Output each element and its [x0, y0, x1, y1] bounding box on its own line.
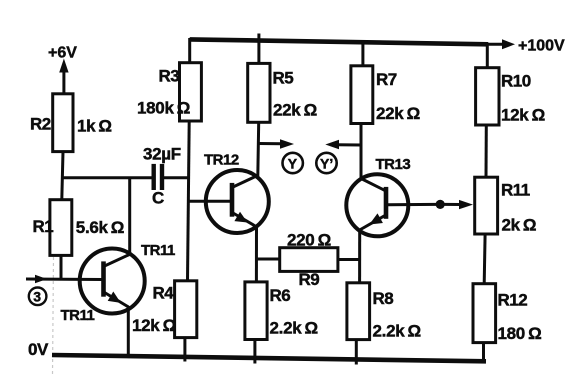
- svg-text:Y’: Y’: [320, 156, 333, 172]
- wire rail to R10 top: [486, 43, 489, 68]
- wire TR13 emitter down to R8: [358, 229, 361, 283]
- svg-text:TR13: TR13: [376, 156, 411, 173]
- wire TR12 emitter down to R6: [255, 226, 258, 282]
- top rail arrow to +100V: [486, 39, 515, 49]
- input arrowhead: [35, 275, 47, 284]
- wire TR13 base to output node: [387, 203, 436, 206]
- svg-text:+6V: +6V: [48, 45, 77, 62]
- +6V supply arrow: [59, 59, 68, 94]
- wire emitter node to R9 left: [255, 258, 280, 261]
- svg-text:3: 3: [33, 289, 41, 305]
- resistor R2: [53, 94, 73, 152]
- input wire to TR11 base: [26, 278, 102, 282]
- wire capacitor to R3/R4 column: [164, 176, 190, 179]
- wire TR11 collector up to cap node: [128, 177, 131, 256]
- wire R9 right to TR13 emitter line: [338, 258, 361, 261]
- svg-text:180k Ω: 180k Ω: [137, 99, 190, 118]
- wire TR12 collector up to R5: [256, 122, 260, 176]
- svg-text:R3: R3: [159, 67, 180, 86]
- node Y (circled): [283, 153, 303, 173]
- wire R5 top to rail: [257, 34, 260, 64]
- svg-text:R10: R10: [501, 72, 531, 91]
- resistor R12: [473, 284, 496, 343]
- test point Y' arrow (left): [325, 140, 361, 149]
- wire R2 bottom to R1 top: [62, 152, 63, 200]
- test point Y arrow (right): [258, 139, 294, 148]
- svg-text:2k Ω: 2k Ω: [502, 216, 537, 235]
- output arrow into R11: [444, 200, 473, 209]
- svg-text:12k Ω: 12k Ω: [501, 106, 545, 125]
- wire rail to R7 top: [361, 41, 364, 66]
- wire TR11 emitter down to 0V rail: [127, 306, 130, 358]
- wire column to TR12 base: [188, 200, 230, 203]
- crease artifact: [53, 257, 54, 374]
- wire R8 bottom to 0V rail: [355, 340, 358, 365]
- resistor R11: [475, 177, 498, 234]
- svg-text:1k Ω: 1k Ω: [77, 117, 112, 136]
- wire rail to R3 top: [188, 38, 191, 63]
- svg-text:22k Ω: 22k Ω: [376, 104, 420, 123]
- svg-text:2.2k Ω: 2.2k Ω: [270, 319, 318, 338]
- wire R4 bottom to 0V rail: [183, 338, 186, 362]
- node 3 (circled): [29, 288, 47, 306]
- resistor R10: [476, 68, 499, 125]
- +100V supply rail (top): [190, 39, 488, 44]
- output junction dot: [436, 200, 445, 209]
- wire node to coupling capacitor: [62, 176, 153, 179]
- wire R10 bottom to R11 top: [485, 125, 488, 177]
- svg-text:180 Ω: 180 Ω: [498, 324, 542, 343]
- svg-text:Y: Y: [288, 156, 298, 172]
- svg-text:R12: R12: [498, 291, 528, 310]
- resistor R8: [347, 283, 370, 340]
- svg-text:TR11: TR11: [61, 307, 95, 324]
- svg-text:C: C: [152, 189, 164, 208]
- svg-text:+100V: +100V: [518, 38, 565, 55]
- transistor TR12: [206, 170, 269, 233]
- transistor TR11: [80, 249, 145, 314]
- svg-text:R4: R4: [153, 284, 175, 303]
- resistor R4: [175, 281, 197, 338]
- 0V rail (bottom): [52, 355, 486, 361]
- wire R1 bottom to input node: [60, 255, 63, 280]
- node Y' (circled): [316, 153, 336, 173]
- svg-text:R5: R5: [273, 69, 294, 88]
- svg-text:32µF: 32µF: [143, 145, 181, 164]
- wire R7 bottom to TR13 collector: [360, 124, 363, 181]
- svg-text:R6: R6: [270, 286, 291, 305]
- svg-text:R9: R9: [299, 270, 320, 289]
- svg-text:220 Ω: 220 Ω: [287, 231, 331, 250]
- svg-text:R11: R11: [501, 181, 530, 200]
- resistor R9: [280, 248, 338, 272]
- svg-text:0V: 0V: [28, 340, 49, 359]
- svg-text:5.6k Ω: 5.6k Ω: [76, 218, 124, 237]
- resistor R7: [351, 66, 373, 124]
- svg-text:R7: R7: [376, 70, 397, 89]
- svg-text:R2: R2: [30, 115, 51, 134]
- svg-text:R8: R8: [373, 289, 394, 308]
- svg-text:2.2k Ω: 2.2k Ω: [373, 322, 421, 341]
- wire R11 bottom to R12 top: [483, 234, 487, 284]
- capacitor C 32uF: [154, 164, 162, 190]
- wire R3 bottom to R4 top (bias column): [188, 121, 190, 281]
- svg-text:R1: R1: [33, 217, 54, 236]
- svg-text:22k Ω: 22k Ω: [273, 101, 317, 120]
- transistor TR13: [346, 174, 408, 236]
- svg-text:12k Ω: 12k Ω: [132, 316, 176, 335]
- wire R12 bottom to 0V rail: [482, 343, 485, 362]
- resistor R1: [50, 200, 72, 256]
- resistor R3: [180, 63, 202, 121]
- resistor R5: [248, 63, 270, 122]
- svg-text:TR11: TR11: [141, 242, 175, 259]
- wire R6 bottom to 0V rail: [253, 340, 256, 364]
- svg-text:TR12: TR12: [204, 152, 239, 169]
- resistor R6: [245, 282, 267, 340]
